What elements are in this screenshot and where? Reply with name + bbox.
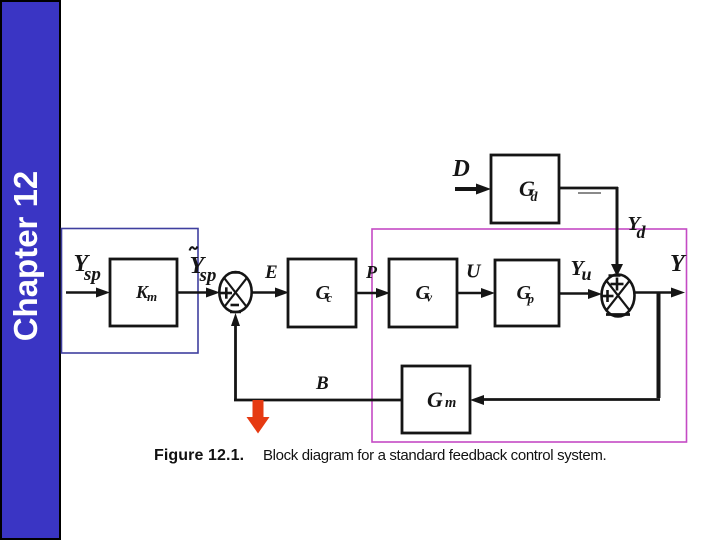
block Gm — [402, 366, 470, 433]
node Ysp-tilde label — [190, 247, 217, 287]
red annotation arrow — [247, 400, 270, 434]
node Ysp label — [74, 251, 101, 285]
wire Gp to summer2 — [559, 289, 602, 299]
svg-text:Chapter 12: Chapter 12 — [7, 171, 44, 342]
sidebar chapter bar — [1, 1, 60, 539]
wire summer2 to output Y — [634, 288, 685, 298]
svg-text:m: m — [147, 289, 157, 304]
svg-text:Y: Y — [670, 251, 687, 277]
svg-text:B: B — [315, 373, 329, 394]
svg-text:d: d — [531, 190, 539, 205]
node Yu label — [571, 256, 592, 284]
caption Figure 12.1 — [154, 447, 606, 464]
svg-text:sp: sp — [83, 264, 101, 285]
wire summer1 to Gc — [252, 288, 290, 298]
svg-text:P: P — [365, 262, 378, 282]
scan noise dash — [578, 192, 601, 194]
svg-text:Figure 12.1.: Figure 12.1. — [154, 447, 244, 464]
svg-text:c: c — [327, 291, 333, 305]
svg-text:E: E — [264, 262, 278, 283]
summing junction 1 — [219, 272, 251, 312]
wire feedback to Gm — [470, 395, 660, 405]
wire input Ysp — [66, 288, 110, 298]
svg-text:d: d — [637, 222, 647, 242]
svg-text:U: U — [466, 261, 482, 283]
svg-text:D: D — [452, 156, 470, 182]
wire output branch down — [657, 292, 661, 398]
block Gd — [491, 155, 559, 223]
wire Km to summer1 — [177, 288, 220, 298]
block Gc — [288, 259, 356, 327]
svg-text:sp: sp — [199, 265, 217, 286]
wire Gv to Gp — [457, 288, 495, 298]
magenta annotation box — [372, 229, 687, 442]
block Km — [110, 259, 177, 326]
svg-text:G: G — [427, 387, 443, 412]
svg-text:Block diagram for a standard f: Block diagram for a standard feedback co… — [263, 447, 606, 464]
node Yd label — [628, 213, 647, 242]
blue annotation box — [62, 229, 199, 354]
wire Gc to Gv — [356, 288, 390, 298]
block Gp — [495, 260, 559, 326]
wire Gm to summer1 (feedback) — [231, 313, 402, 401]
svg-text:u: u — [582, 264, 592, 284]
svg-text:m: m — [445, 395, 456, 411]
svg-text:p: p — [527, 291, 535, 306]
disturbance D arrow — [455, 184, 491, 195]
wire Gd to summer2 (corner) — [559, 187, 623, 277]
svg-text:v: v — [427, 291, 433, 305]
summing junction 2 — [602, 275, 635, 317]
block Gv — [389, 259, 457, 327]
